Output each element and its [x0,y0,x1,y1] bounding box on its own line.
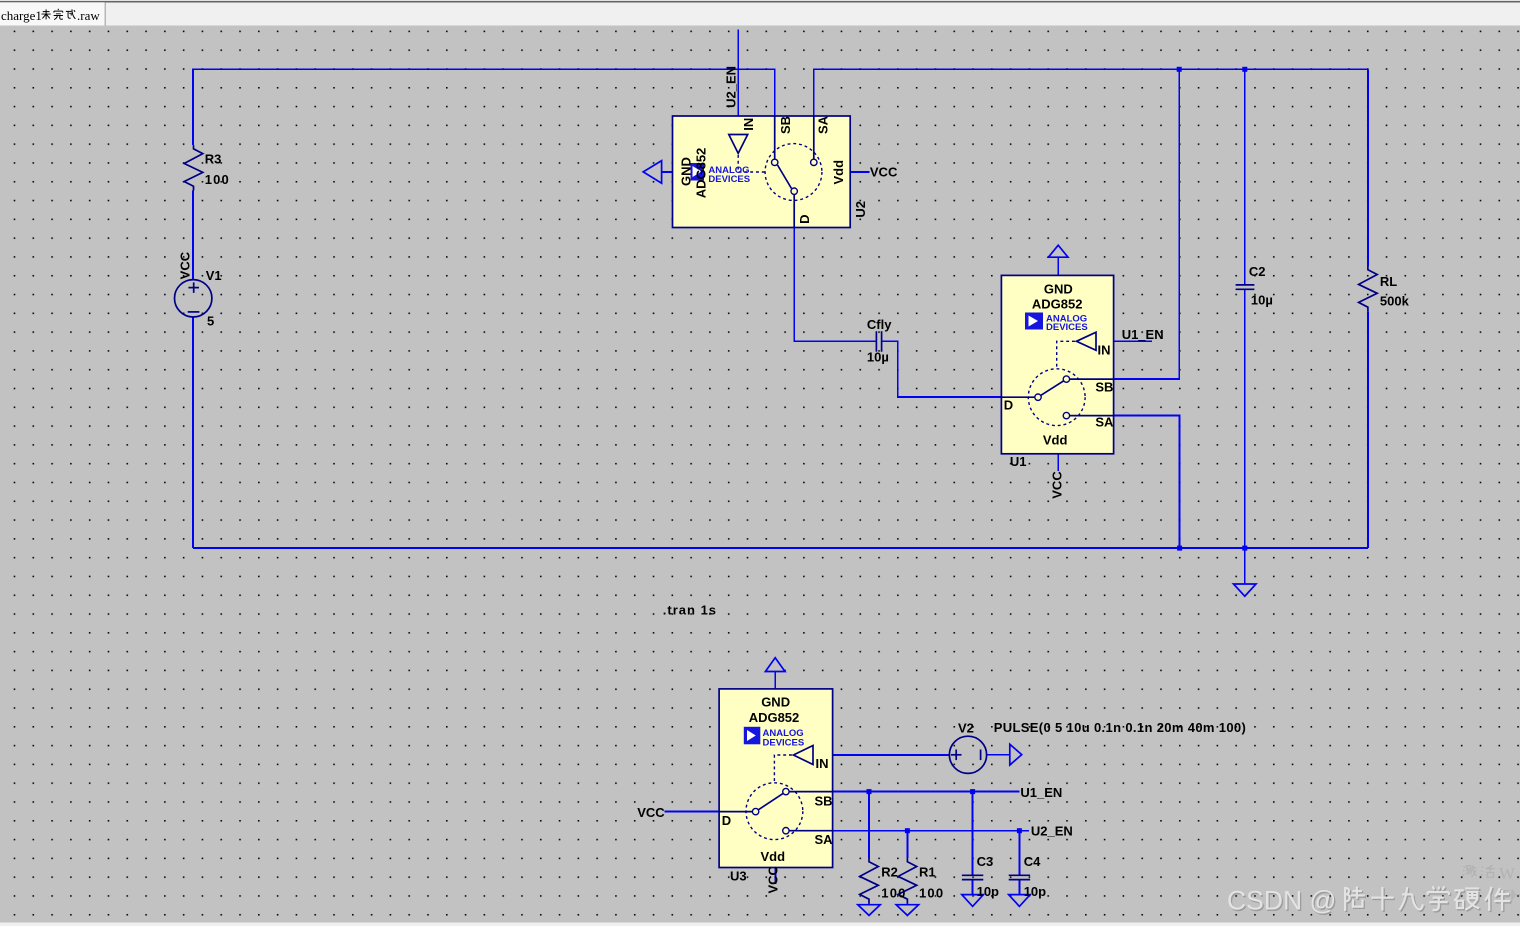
svg-text:V1: V1 [206,268,222,283]
svg-text:10p: 10p [977,884,999,899]
svg-text:C2: C2 [1249,264,1266,279]
svg-text:SA: SA [1095,414,1114,429]
svg-text:GND: GND [679,157,694,186]
svg-text:Vdd: Vdd [1043,432,1068,447]
svg-text:U1_EN: U1_EN [1020,785,1062,800]
svg-text:VCC: VCC [1050,471,1065,499]
svg-text:U2_EN: U2_EN [1031,823,1073,838]
svg-text:Cfly: Cfly [867,317,892,332]
svg-text:IN: IN [741,118,756,131]
svg-text:DEVICES: DEVICES [763,737,805,748]
svg-text:U2_EN: U2_EN [724,66,739,108]
svg-text:DEVICES: DEVICES [1046,322,1088,333]
svg-text:IN: IN [1098,342,1111,357]
svg-text:10µ: 10µ [1251,293,1273,308]
svg-text:10µ: 10µ [867,350,889,365]
svg-text:VCC: VCC [766,865,781,893]
svg-text:SA: SA [816,115,831,134]
svg-text:SB: SB [1095,380,1113,395]
svg-text:GND: GND [1044,281,1073,296]
svg-text:100: 100 [919,886,944,901]
svg-text:IN: IN [816,756,829,771]
svg-text:ADG852: ADG852 [749,710,800,725]
svg-text:VCC: VCC [178,251,193,279]
svg-text:SB: SB [815,794,833,809]
svg-text:500k: 500k [1380,294,1410,309]
svg-text:ADG852: ADG852 [693,148,708,199]
svg-text:charge1: charge1 [1,8,42,23]
svg-text:Vdd: Vdd [761,849,786,864]
svg-text:ADG852: ADG852 [1032,297,1083,312]
svg-text:GND: GND [761,694,790,709]
svg-text:RL: RL [1380,274,1397,289]
svg-text:.tran 1s: .tran 1s [663,603,717,618]
svg-text:DEVICES: DEVICES [708,174,750,185]
svg-text:U1: U1 [1010,454,1027,469]
svg-text:SA: SA [815,832,834,847]
svg-text:U2: U2 [853,201,868,218]
svg-text:C4: C4 [1024,854,1041,869]
svg-text:U3: U3 [730,868,747,883]
svg-text:W: W [1499,864,1516,883]
svg-text:U1_EN: U1_EN [1122,327,1164,342]
svg-text:D: D [722,813,731,828]
svg-text:D: D [797,215,812,224]
svg-text:D: D [1004,397,1013,412]
svg-text:PULSE(0 5 10u 0.1n 0.1n 20m 40: PULSE(0 5 10u 0.1n 0.1n 20m 40m 100) [994,720,1246,735]
svg-text:R2: R2 [881,864,898,879]
svg-text:VCC: VCC [870,164,898,179]
svg-text:R1: R1 [919,864,936,879]
svg-text:10p: 10p [1024,884,1046,899]
svg-text:.raw: .raw [77,8,100,23]
svg-text:5: 5 [207,313,214,328]
svg-text:Vdd: Vdd [831,160,846,185]
svg-text:CSDN @: CSDN @ [1227,886,1336,916]
svg-text:V2: V2 [958,721,974,736]
svg-text:SB: SB [778,116,793,134]
svg-text:100: 100 [881,886,906,901]
svg-text:VCC: VCC [637,805,665,820]
svg-text:100: 100 [205,172,230,187]
svg-text:R3: R3 [205,151,222,166]
svg-text:C3: C3 [977,854,994,869]
